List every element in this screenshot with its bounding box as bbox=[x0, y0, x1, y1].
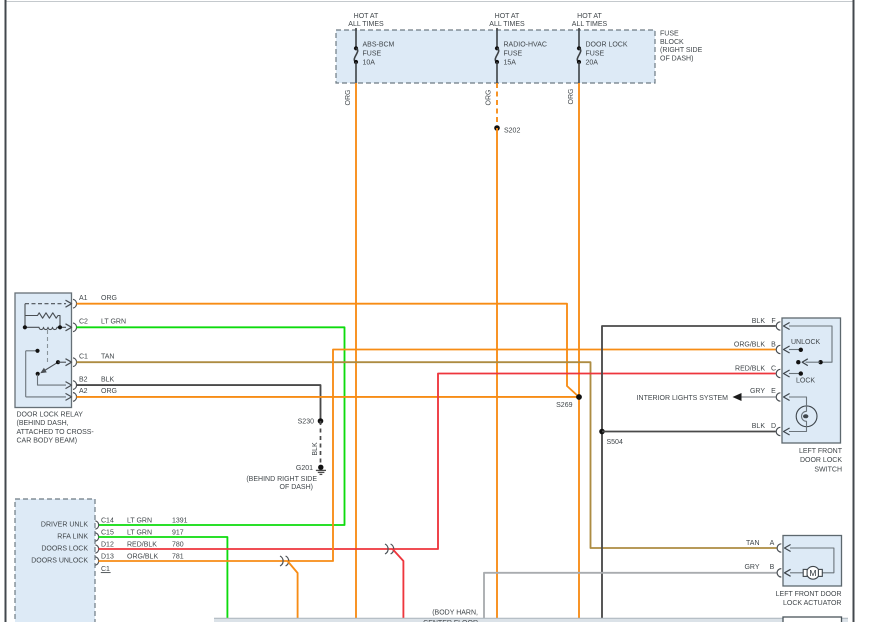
svg-text:DOOR LOCK: DOOR LOCK bbox=[800, 457, 842, 464]
page top border bbox=[6, 1, 854, 3]
svg-text:A2: A2 bbox=[79, 388, 88, 395]
relay K1 DOOR LOCK RELAY box bbox=[15, 293, 94, 445]
svg-text:B2: B2 bbox=[79, 377, 88, 384]
svg-text:GRY: GRY bbox=[744, 564, 759, 571]
wire LT GRN C15 down to bottom bbox=[99, 537, 228, 622]
svg-text:ATTACHED TO CROSS-: ATTACHED TO CROSS- bbox=[17, 429, 95, 436]
svg-text:BLK: BLK bbox=[752, 318, 766, 325]
svg-text:LT GRN: LT GRN bbox=[101, 319, 126, 326]
svg-text:RFA LINK: RFA LINK bbox=[57, 533, 88, 540]
wire ORG fuse3 vertical below S269 bbox=[578, 397, 580, 622]
svg-text:M: M bbox=[809, 568, 816, 578]
svg-text:20A: 20A bbox=[586, 60, 599, 67]
svg-text:BLK: BLK bbox=[312, 442, 319, 456]
svg-text:G201: G201 bbox=[296, 465, 313, 472]
relay pin B2 bbox=[66, 377, 115, 390]
svg-text:B: B bbox=[770, 564, 775, 571]
svg-text:LOCK ACTUATOR: LOCK ACTUATOR bbox=[783, 600, 841, 607]
svg-text:HOT AT: HOT AT bbox=[495, 13, 520, 20]
node HOT AT ALL TIMES feed 2 bbox=[489, 13, 525, 28]
fuse block box (RIGHT SIDE OF DASH) bbox=[336, 30, 703, 83]
svg-text:DOORS LOCK: DOORS LOCK bbox=[41, 545, 88, 552]
svg-text:LEFT FRONT: LEFT FRONT bbox=[799, 448, 843, 455]
wire ORG fuse2 vertical below S202 bbox=[496, 128, 498, 622]
actuator pin B bbox=[744, 564, 790, 577]
svg-text:ALL TIMES: ALL TIMES bbox=[572, 21, 608, 28]
svg-text:E: E bbox=[771, 388, 776, 395]
svg-text:1391: 1391 bbox=[172, 518, 188, 525]
svg-text:RED/BLK: RED/BLK bbox=[735, 365, 765, 372]
svg-text:(BODY HARN,: (BODY HARN, bbox=[432, 609, 478, 616]
svg-text:ALL TIMES: ALL TIMES bbox=[489, 21, 525, 28]
svg-text:C1: C1 bbox=[79, 354, 88, 361]
relay pin A2 bbox=[66, 388, 117, 401]
node S269 bbox=[556, 394, 582, 409]
svg-text:LT GRN: LT GRN bbox=[127, 518, 152, 525]
wire GRY switch pin E to interior lights system bbox=[637, 393, 776, 402]
svg-text:UNLOCK: UNLOCK bbox=[791, 339, 821, 346]
svg-text:FUSE: FUSE bbox=[363, 51, 382, 58]
svg-text:ABS-BCM: ABS-BCM bbox=[363, 42, 395, 49]
svg-text:FUSE: FUSE bbox=[586, 51, 605, 58]
wire BLK dashed S230 to G201 bbox=[312, 421, 321, 464]
wire ORG relay A1 to S269 bbox=[77, 304, 580, 397]
relay pin A1 bbox=[66, 295, 117, 308]
switch pin C bbox=[735, 365, 790, 377]
switch lamp bbox=[789, 397, 817, 432]
relay pin C2 bbox=[66, 319, 127, 332]
svg-text:LOCK: LOCK bbox=[796, 377, 815, 384]
svg-text:INTERIOR LIGHTS SYSTEM: INTERIOR LIGHTS SYSTEM bbox=[637, 395, 729, 402]
svg-text:CAR BODY BEAM): CAR BODY BEAM) bbox=[17, 438, 78, 445]
relay K1 switch internals bbox=[26, 349, 66, 397]
wire BLK S504 to switch pin D bbox=[602, 431, 776, 433]
svg-text:DOOR LOCK RELAY: DOOR LOCK RELAY bbox=[17, 412, 84, 419]
switch pin F bbox=[752, 318, 790, 330]
svg-text:C2: C2 bbox=[79, 319, 88, 326]
node S202 bbox=[494, 125, 520, 134]
wire LT GRN relay C2 to connector C14 bbox=[77, 327, 345, 525]
page right border bbox=[853, 0, 855, 622]
connector pin D13 bbox=[95, 554, 183, 566]
wire RED/BLK branch down to bottom bbox=[393, 549, 404, 622]
svg-text:ORG: ORG bbox=[345, 90, 352, 106]
switch pin D bbox=[752, 423, 790, 436]
svg-text:C14: C14 bbox=[101, 518, 114, 525]
switch SW1 LEFT FRONT DOOR LOCK SWITCH box bbox=[782, 318, 843, 474]
wire BLK relay B2 to S230 bbox=[77, 385, 321, 421]
svg-text:D: D bbox=[771, 423, 776, 430]
svg-text:DOOR LOCK: DOOR LOCK bbox=[586, 42, 628, 49]
svg-text:DOORS UNLOCK: DOORS UNLOCK bbox=[31, 557, 88, 564]
svg-text:S269: S269 bbox=[556, 402, 572, 409]
svg-text:A: A bbox=[770, 540, 775, 547]
svg-text:LT GRN: LT GRN bbox=[127, 530, 152, 537]
svg-text:GRY: GRY bbox=[750, 388, 765, 395]
svg-text:HOT AT: HOT AT bbox=[354, 13, 379, 20]
svg-text:BLK: BLK bbox=[752, 423, 766, 430]
connector C1 body harness box bbox=[15, 499, 111, 622]
svg-text:A1: A1 bbox=[79, 295, 88, 302]
relay pin C1 bbox=[66, 354, 115, 367]
ground G201 bbox=[246, 465, 326, 491]
switch UNLOCK contact bbox=[789, 339, 821, 352]
svg-text:S504: S504 bbox=[607, 439, 623, 446]
page left border bbox=[5, 0, 7, 622]
wire ORG fuse2 dashed segment bbox=[486, 83, 498, 128]
fuse RADIO-HVAC 15A bbox=[495, 28, 547, 83]
switch pin E bbox=[750, 388, 790, 401]
svg-text:BLOCK: BLOCK bbox=[660, 39, 684, 46]
svg-text:RADIO-HVAC: RADIO-HVAC bbox=[504, 42, 547, 49]
svg-text:BLK: BLK bbox=[101, 377, 115, 384]
switch LOCK contact bbox=[789, 371, 815, 384]
svg-text:S230: S230 bbox=[298, 419, 314, 426]
wire ORG relay A2 to S269 bbox=[77, 396, 580, 398]
svg-text:FUSE: FUSE bbox=[660, 31, 679, 38]
svg-text:10A: 10A bbox=[363, 60, 376, 67]
node S230 bbox=[298, 418, 324, 425]
svg-text:C: C bbox=[771, 365, 776, 372]
svg-text:SWITCH: SWITCH bbox=[814, 467, 842, 474]
svg-text:TAN: TAN bbox=[746, 540, 759, 547]
bottom cut-off component box bbox=[783, 617, 842, 622]
svg-text:ORG: ORG bbox=[101, 388, 117, 395]
switch pin B bbox=[734, 341, 790, 353]
svg-text:LEFT FRONT DOOR: LEFT FRONT DOOR bbox=[776, 591, 842, 598]
bottom harness bar (cut off box) bbox=[214, 618, 848, 622]
svg-text:ORG/BLK: ORG/BLK bbox=[127, 554, 158, 561]
label BODY HARN bbox=[423, 609, 478, 622]
inline connector on RED/BLK wire bbox=[385, 544, 394, 554]
svg-text:ORG: ORG bbox=[486, 90, 493, 106]
wire GRY actuator pin B to bottom bbox=[484, 573, 777, 622]
wire RED/BLK D12 to switch pin C bbox=[99, 374, 776, 550]
node S504 bbox=[599, 429, 623, 446]
svg-text:OF DASH): OF DASH) bbox=[280, 484, 313, 491]
svg-text:ORG: ORG bbox=[568, 89, 575, 105]
fuse ABS-BCM 10A bbox=[354, 28, 395, 83]
wire ORG fuse3 vertical to S269 bbox=[568, 83, 579, 397]
node HOT AT ALL TIMES feed 1 bbox=[348, 13, 384, 28]
svg-text:ORG: ORG bbox=[101, 295, 117, 302]
svg-text:781: 781 bbox=[172, 554, 184, 561]
svg-text:HOT AT: HOT AT bbox=[577, 13, 602, 20]
relay K1 coil circuit internals bbox=[23, 304, 66, 364]
svg-text:B: B bbox=[771, 341, 776, 348]
svg-text:15A: 15A bbox=[504, 60, 517, 67]
connector pin C15 bbox=[95, 530, 183, 542]
svg-text:917: 917 bbox=[172, 530, 184, 537]
inline connector on ORG/BLK wire bbox=[280, 556, 289, 566]
svg-text:C15: C15 bbox=[101, 530, 114, 537]
svg-text:S202: S202 bbox=[504, 128, 520, 135]
svg-text:TAN: TAN bbox=[101, 354, 114, 361]
actuator M1 LEFT FRONT DOOR LOCK ACTUATOR box bbox=[776, 536, 842, 608]
wire ORG fuse1 vertical to bottom bbox=[345, 83, 356, 622]
wire ORG/BLK branch down to bottom bbox=[288, 561, 298, 622]
svg-text:DRIVER UNLK: DRIVER UNLK bbox=[41, 521, 88, 528]
svg-text:D13: D13 bbox=[101, 554, 114, 561]
svg-text:RED/BLK: RED/BLK bbox=[127, 542, 157, 549]
svg-text:D12: D12 bbox=[101, 542, 114, 549]
switch internal F loop to wiper bbox=[789, 326, 832, 364]
wire ORG/BLK D13 to switch pin B bbox=[99, 350, 776, 562]
svg-text:(BEHIND DASH,: (BEHIND DASH, bbox=[17, 420, 69, 427]
svg-text:780: 780 bbox=[172, 542, 184, 549]
svg-text:(RIGHT SIDE: (RIGHT SIDE bbox=[660, 47, 703, 54]
fuse DOOR LOCK 20A bbox=[577, 28, 628, 83]
svg-text:C1: C1 bbox=[101, 566, 110, 573]
node HOT AT ALL TIMES feed 3 bbox=[572, 13, 608, 28]
svg-text:OF DASH): OF DASH) bbox=[660, 55, 693, 62]
svg-text:ORG/BLK: ORG/BLK bbox=[734, 341, 765, 348]
wire TAN relay C1 to actuator pin A bbox=[77, 362, 777, 548]
switch wiper arm bbox=[796, 359, 820, 366]
actuator pin A bbox=[746, 540, 791, 552]
svg-text:(BEHIND RIGHT SIDE: (BEHIND RIGHT SIDE bbox=[246, 476, 317, 483]
svg-text:ALL TIMES: ALL TIMES bbox=[348, 21, 384, 28]
connector pin C14 bbox=[95, 518, 187, 530]
connector pin D12 bbox=[95, 542, 183, 554]
svg-text:F: F bbox=[771, 318, 775, 325]
svg-text:FUSE: FUSE bbox=[504, 51, 523, 58]
actuator motor M bbox=[790, 548, 834, 579]
wire BLK switch pin F to bottom through S504 bbox=[602, 326, 776, 622]
